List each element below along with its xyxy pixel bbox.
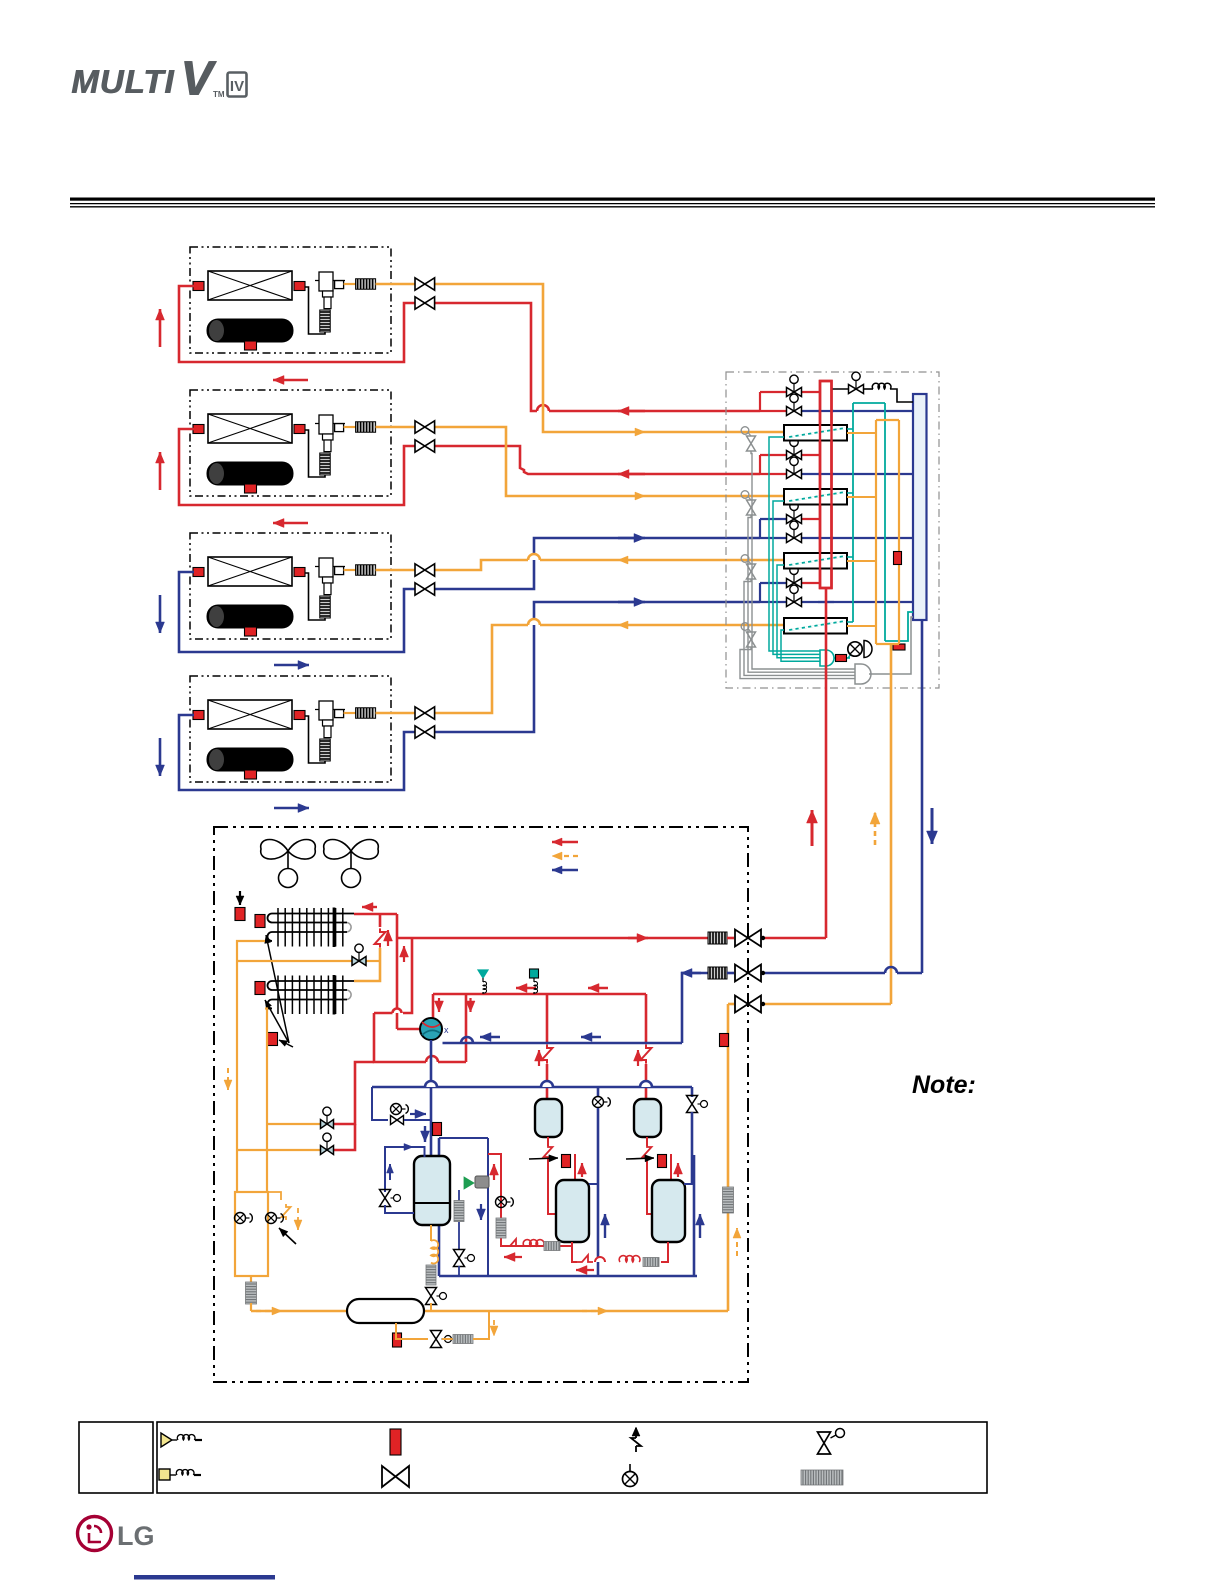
svg-text:TM: TM — [213, 90, 225, 99]
svg-text:MULTI: MULTI — [71, 63, 174, 100]
svg-text:Note:: Note: — [912, 1071, 976, 1099]
svg-text:x: x — [444, 1025, 449, 1035]
svg-text:LG: LG — [117, 1521, 155, 1551]
svg-text:V: V — [180, 52, 217, 106]
svg-text:IV: IV — [230, 78, 244, 95]
